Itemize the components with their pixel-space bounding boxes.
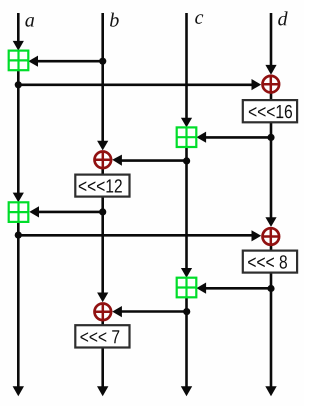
xor X3 (d ^= a) (263, 228, 280, 245)
wire b from R2 to xor X4 (97, 197, 108, 303)
wire b top into xor X2 (97, 13, 108, 150)
wire from node d junction to adder A3 (196, 132, 271, 143)
xor X1 (d ^= a) (263, 76, 280, 93)
junction dot on c (row 10) (183, 308, 190, 315)
wire b output with bottom arrow (97, 348, 108, 397)
wire d top into xor X1 (265, 13, 276, 75)
wire a from A1 to adder A2 (13, 70, 24, 202)
wire from node b junction to adder A1 (28, 56, 102, 67)
rotate box R4 <<<7 (75, 325, 129, 347)
wire a top into adder A1 (13, 13, 24, 51)
wire from node c junction to xor X4 (112, 306, 187, 317)
wire from node a junction to xor X1 (18, 79, 261, 90)
wire c from A3 to adder A4 (181, 147, 192, 278)
adder A1 (a += b) (9, 51, 29, 71)
junction dot on d (row 4) (267, 134, 274, 141)
adder A2 (a += b) (9, 202, 29, 222)
wire d from X1 to rotate R1 (270, 93, 273, 101)
rotate box R3 <<<8 (243, 251, 297, 273)
junction dot on a (row 8) (15, 232, 22, 239)
wire c output with bottom arrow (181, 297, 192, 396)
junction dot on a (row 2) (15, 81, 22, 88)
adder A4 (c += d) (177, 278, 197, 298)
xor X2 (b ^= c) (95, 152, 112, 169)
xor X4 (b ^= c) (95, 304, 112, 321)
wire from node b junction to adder A2 (29, 206, 102, 217)
node label c (195, 14, 203, 24)
wire from node a junction to xor X3 (18, 230, 261, 241)
wire a output with bottom arrow (13, 222, 24, 397)
adder A3 (c += d) (177, 127, 197, 147)
junction dot on c (row 5) (183, 157, 190, 164)
wire b from X2 to rotate R2 (101, 169, 104, 176)
wire d from X3 to rotate R3 (270, 246, 273, 252)
node label d (278, 11, 287, 25)
wire c top into adder A3 (181, 13, 192, 127)
rotate box R1 <<<16 (243, 100, 297, 122)
wire b from X4 to rotate R4 (101, 321, 104, 326)
rotate box R2 <<<12 (75, 175, 129, 197)
junction dot on d (row 9) (267, 285, 274, 292)
wire from node c junction to xor X2 (112, 155, 186, 166)
node label b (110, 13, 119, 27)
wire from node d junction to adder A4 (196, 283, 271, 294)
wire d from R1 to xor X3 (265, 122, 276, 227)
wire d output with bottom arrow (265, 273, 276, 397)
junction dot on b (row 1) (99, 58, 106, 65)
junction dot on b (row 7) (99, 208, 106, 215)
node label a (25, 17, 34, 27)
